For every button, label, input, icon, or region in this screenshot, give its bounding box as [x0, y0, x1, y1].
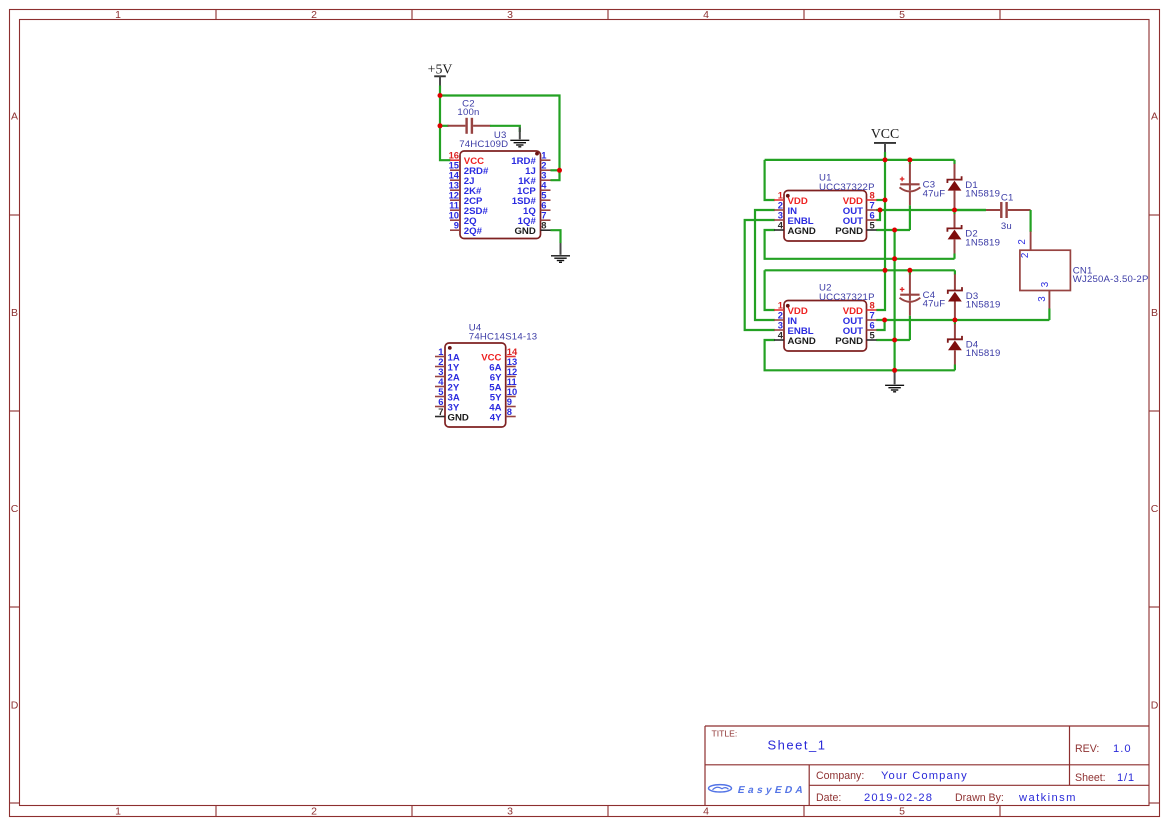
- U1 pin numbers: [778, 189, 875, 230]
- wire: [551, 169, 560, 171]
- wire: [765, 340, 955, 370]
- svg-text:watkinsm: watkinsm: [1018, 792, 1077, 804]
- U1 pin stubs: [774, 200, 877, 230]
- U3 labels: [459, 130, 508, 150]
- capacitor C1: [986, 202, 1031, 218]
- svg-text:PGND: PGND: [835, 226, 863, 237]
- wire: [1029, 210, 1031, 232]
- IC U2 UCC37321P: [784, 301, 867, 352]
- U1 pin names: [788, 196, 864, 237]
- svg-text:A: A: [11, 110, 18, 122]
- U3 pin names: [464, 156, 537, 237]
- junction: [892, 256, 897, 261]
- svg-text:74HC14S14-13: 74HC14S14-13: [469, 332, 538, 343]
- wire: [490, 126, 520, 132]
- ground (main): [885, 373, 904, 392]
- junction: [883, 198, 888, 203]
- diode D2 1N5819: [947, 210, 961, 259]
- svg-text:AGND: AGND: [788, 226, 816, 237]
- wire: [440, 125, 449, 127]
- title block: [705, 726, 1149, 806]
- svg-text:Sheet_1: Sheet_1: [768, 738, 827, 753]
- wire: [1048, 309, 1050, 321]
- svg-text:9: 9: [454, 220, 459, 231]
- svg-text:4: 4: [778, 219, 784, 230]
- svg-text:UCC37322P: UCC37322P: [819, 182, 875, 193]
- wire: [765, 159, 955, 161]
- svg-text:C: C: [11, 503, 19, 515]
- wire: [440, 96, 451, 161]
- svg-text:Sheet:: Sheet:: [1075, 772, 1106, 784]
- capacitor C4 polarized: [900, 270, 921, 340]
- wire IN link U1-U2: [755, 210, 775, 320]
- U3 pin stubs: [450, 160, 551, 230]
- svg-text:4Y: 4Y: [490, 412, 502, 423]
- junction: [892, 338, 897, 343]
- svg-text:Drawn By:: Drawn By:: [955, 792, 1004, 804]
- junction: [438, 93, 443, 98]
- junction: [878, 208, 883, 213]
- svg-text:VCC: VCC: [871, 126, 899, 141]
- svg-text:REV:: REV:: [1075, 743, 1099, 755]
- U4 labels: [469, 323, 538, 343]
- U2 pin numbers: [778, 299, 875, 340]
- svg-text:4: 4: [778, 329, 784, 340]
- svg-text:2Q#: 2Q#: [464, 226, 483, 237]
- junction: [892, 228, 897, 233]
- svg-text:C1: C1: [1001, 193, 1014, 204]
- svg-text:1/1: 1/1: [1117, 772, 1135, 784]
- svg-text:TITLE:: TITLE:: [712, 729, 738, 739]
- IC U1 UCC37322P: [784, 191, 867, 242]
- U3 pin numbers: [449, 150, 548, 231]
- svg-text:5: 5: [870, 329, 875, 340]
- junction: [952, 318, 957, 323]
- diode D3 1N5819: [948, 270, 962, 320]
- svg-text:B: B: [1151, 307, 1158, 319]
- svg-text:5: 5: [899, 9, 905, 21]
- svg-text:PGND: PGND: [835, 336, 863, 347]
- U2 labels: [819, 283, 875, 303]
- svg-text:1: 1: [115, 806, 121, 818]
- svg-text:2: 2: [1020, 253, 1031, 258]
- U4 pin numbers: [438, 346, 518, 417]
- svg-text:Company:: Company:: [816, 770, 864, 782]
- svg-text:8: 8: [541, 220, 546, 231]
- svg-text:3: 3: [507, 806, 513, 818]
- wire: [876, 339, 910, 341]
- svg-text:47uF: 47uF: [923, 299, 946, 310]
- svg-text:AGND: AGND: [788, 336, 816, 347]
- U4 pin names: [448, 352, 503, 423]
- wire: [551, 170, 560, 180]
- svg-text:5: 5: [870, 219, 875, 230]
- wire: [876, 199, 885, 201]
- junction: [438, 123, 443, 128]
- wire VCC vertical: [876, 152, 885, 310]
- junction: [883, 268, 888, 273]
- svg-text:1N5819: 1N5819: [966, 299, 1001, 310]
- wire: [876, 210, 880, 220]
- U2 pin stubs: [774, 310, 877, 340]
- svg-text:2019-02-28: 2019-02-28: [864, 792, 933, 804]
- ground (U3 GND pin): [551, 243, 570, 262]
- svg-text:C: C: [1151, 503, 1159, 515]
- U1 labels: [819, 173, 875, 193]
- ground: [510, 128, 529, 147]
- svg-text:8: 8: [507, 406, 512, 417]
- junction: [892, 368, 897, 373]
- svg-text:3: 3: [1040, 281, 1051, 287]
- wire: [876, 320, 884, 330]
- power flag VCC: [871, 126, 899, 153]
- svg-text:74HC109D: 74HC109D: [459, 139, 508, 150]
- svg-text:4: 4: [703, 806, 709, 818]
- capacitor C3 polarized: [900, 160, 921, 230]
- svg-text:D: D: [1151, 699, 1159, 711]
- junction: [883, 157, 888, 162]
- svg-text:GND: GND: [514, 226, 535, 237]
- svg-text:EasyEDA: EasyEDA: [737, 785, 808, 796]
- svg-text:1N5819: 1N5819: [966, 348, 1001, 359]
- svg-text:3: 3: [507, 9, 513, 21]
- wire: [765, 230, 955, 259]
- IC U4 74HC14S14-13: [445, 343, 506, 427]
- svg-text:3u: 3u: [1001, 221, 1012, 232]
- wire: [551, 230, 561, 243]
- svg-text:2: 2: [311, 806, 317, 818]
- svg-text:47uF: 47uF: [923, 188, 946, 199]
- connector CN1 WJ250A-3.50-2P: [1020, 232, 1071, 309]
- svg-text:Date:: Date:: [816, 792, 841, 804]
- U2 pin names: [788, 306, 864, 347]
- wire ground vertical: [893, 230, 895, 370]
- junction: [952, 208, 957, 213]
- wire: [876, 209, 986, 211]
- power flag +5V: [428, 61, 453, 86]
- wire: [440, 96, 560, 171]
- wire: [765, 160, 775, 200]
- svg-text:1N5819: 1N5819: [965, 237, 1000, 248]
- svg-text:5: 5: [899, 806, 905, 818]
- svg-text:1N5819: 1N5819: [965, 189, 1000, 200]
- svg-text:UCC37321P: UCC37321P: [819, 292, 875, 303]
- svg-text:7: 7: [438, 406, 443, 417]
- IC U3 74HC109D: [460, 151, 541, 239]
- EasyEDA logo: [709, 785, 808, 796]
- svg-text:2: 2: [1017, 239, 1028, 244]
- junction: [907, 157, 912, 162]
- diode D4 1N5819: [948, 320, 962, 370]
- svg-text:Your Company: Your Company: [881, 770, 968, 782]
- wire: [765, 270, 775, 310]
- svg-text:3: 3: [1037, 296, 1048, 302]
- wire: [439, 86, 441, 96]
- svg-text:A: A: [1151, 110, 1158, 122]
- wire: [955, 209, 987, 211]
- svg-text:100n: 100n: [457, 107, 479, 118]
- wire ENBL link U1-U2: [745, 220, 775, 330]
- svg-text:D: D: [11, 699, 19, 711]
- svg-text:2: 2: [311, 9, 317, 21]
- wire: [876, 319, 1049, 321]
- junction: [907, 268, 912, 273]
- svg-text:GND: GND: [448, 412, 469, 423]
- svg-text:WJ250A-3.50-2P: WJ250A-3.50-2P: [1073, 274, 1149, 285]
- svg-text:B: B: [11, 307, 18, 319]
- svg-text:4: 4: [703, 9, 709, 21]
- svg-text:+5V: +5V: [428, 61, 453, 76]
- junction: [557, 168, 562, 173]
- U4 pin stubs: [435, 357, 516, 417]
- capacitor C2: [448, 118, 491, 134]
- svg-text:1: 1: [115, 9, 121, 21]
- wire: [765, 269, 955, 271]
- junction: [882, 318, 887, 323]
- svg-text:1.0: 1.0: [1113, 743, 1132, 755]
- diode D1 1N5819: [947, 160, 961, 210]
- title block texts: [712, 729, 1135, 804]
- wire: [876, 229, 910, 231]
